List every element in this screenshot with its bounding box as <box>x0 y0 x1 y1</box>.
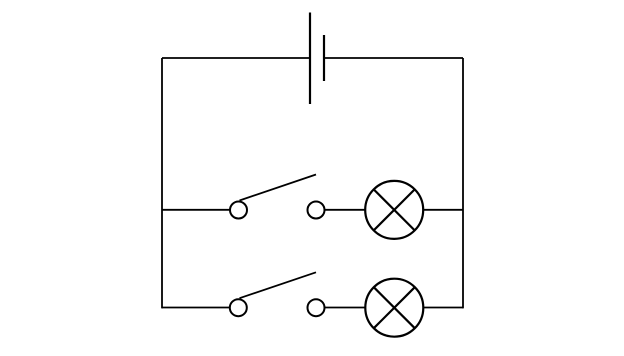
battery B1 short plate (negative) <box>323 35 325 81</box>
wire bottom branch left <box>162 307 230 309</box>
lamp L1 cross stroke 2 <box>374 189 415 230</box>
wire right vertical <box>462 58 464 308</box>
lamp L2 cross stroke 1 <box>374 287 415 328</box>
switch S2 left contact circle <box>230 299 247 316</box>
lamp L2 cross stroke 2 <box>374 287 415 328</box>
switch S1 arm (open) <box>240 175 317 201</box>
wire lamp L1 to right vertical <box>423 209 463 211</box>
switch S2 right contact circle <box>308 299 325 316</box>
wire top-right (battery negative lead) <box>324 57 463 59</box>
wire top-left (battery positive lead) <box>162 57 310 59</box>
lamp L1 circle <box>365 181 423 239</box>
wire lamp L2 to right vertical <box>423 307 463 309</box>
wire switch S2 to lamp L2 <box>325 307 366 309</box>
lamp L2 circle <box>365 279 423 337</box>
switch S1 left contact circle <box>230 202 247 219</box>
switch S2 arm (open) <box>240 272 317 298</box>
switch S1 right contact circle <box>308 202 325 219</box>
battery B1 long plate (positive) <box>309 13 311 105</box>
lamp L1 cross stroke 1 <box>374 189 415 230</box>
wire middle branch left <box>162 209 230 211</box>
wire left vertical <box>161 58 163 308</box>
wire switch S1 to lamp L1 <box>325 209 366 211</box>
